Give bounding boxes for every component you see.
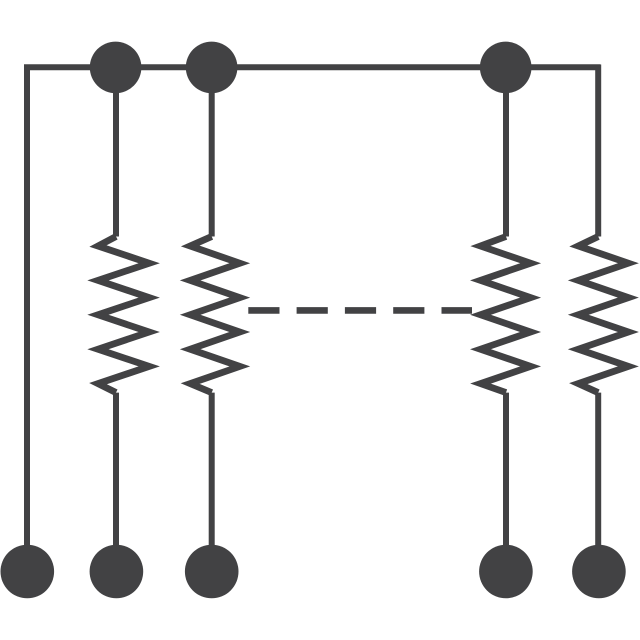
resistor R3 bbox=[481, 237, 531, 393]
node: bottom terminal dot pin 1 bbox=[1, 545, 55, 599]
node: top junction dot 2 bbox=[186, 42, 238, 94]
node: top junction dot 3 bbox=[480, 42, 532, 94]
wire: R3 bottom lead bbox=[503, 393, 509, 571]
node: bottom terminal dot pin 2 bbox=[90, 545, 144, 599]
resistor R1 bbox=[98, 237, 149, 393]
wire: top bus (horizontal) bbox=[24, 64, 600, 70]
resistor R2 bbox=[190, 237, 240, 393]
node: bottom terminal dot pin n-1 bbox=[479, 545, 533, 599]
wire: bus to R1 top bbox=[113, 67, 119, 236]
wire: right bus drop to R4 bbox=[595, 65, 601, 237]
node: bottom terminal dot pin 3 bbox=[185, 545, 239, 599]
node: bottom terminal dot pin n bbox=[572, 545, 626, 599]
wire: left common leg (vertical, pin 1) bbox=[24, 65, 30, 572]
wire: bus to R3 top bbox=[503, 67, 509, 236]
wire: bus to R2 top bbox=[209, 67, 215, 236]
wire: ellipsis dashed continuation line bbox=[248, 307, 472, 314]
wire: R4 bottom lead bbox=[595, 393, 601, 571]
wire: R2 bottom lead bbox=[209, 393, 215, 571]
resistor R4 bbox=[578, 237, 628, 393]
node: top junction dot 1 bbox=[90, 42, 142, 94]
wire: R1 bottom lead bbox=[113, 393, 119, 571]
